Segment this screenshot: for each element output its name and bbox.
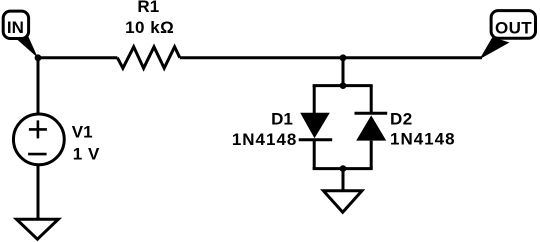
wire: D1 anode lead — [313, 86, 316, 114]
svg-text:R1: R1 — [137, 0, 159, 16]
terminal flag OUT — [480, 11, 536, 60]
svg-text:V1: V1 — [72, 122, 93, 141]
ground (under diodes) — [323, 191, 362, 213]
wire: main wire down to diode pair — [342, 58, 345, 86]
svg-text:10 kΩ: 10 kΩ — [125, 18, 174, 37]
svg-text:1N4148: 1N4148 — [232, 130, 298, 149]
wire: D2 cathode lead — [370, 86, 373, 114]
wire: bottom bus of diode pair — [313, 167, 373, 170]
wire: main horizontal right segment (R1 to OUT) — [180, 56, 482, 59]
node B (junction dot on main wire above diodes) — [340, 54, 347, 61]
svg-text:1 V: 1 V — [73, 144, 100, 163]
ground (under V1) — [17, 219, 59, 239]
wire: D2 anode lead — [370, 141, 373, 169]
node C (junction dot at top bus of diode pair) — [340, 82, 347, 89]
wire: V1 to ground — [37, 164, 40, 219]
node D (junction dot at bottom bus) — [340, 165, 347, 172]
wire: top bus of diode pair — [313, 84, 373, 87]
wire: IN node down to V1 — [37, 58, 40, 115]
terminal flag IN — [3, 11, 38, 58]
diode D2 — [355, 113, 388, 140]
wire: bottom bus to ground — [342, 169, 345, 191]
diode D1 — [299, 113, 333, 140]
svg-text:OUT: OUT — [495, 19, 532, 38]
svg-text:D2: D2 — [390, 110, 413, 129]
svg-text:IN: IN — [7, 18, 24, 37]
svg-text:D1: D1 — [271, 110, 293, 129]
node A (junction dot at IN node) — [35, 54, 42, 61]
resistor R1 — [117, 47, 179, 68]
svg-text:1N4148: 1N4148 — [390, 130, 456, 149]
wire: main horizontal left segment (node IN to R1) — [38, 56, 117, 59]
wire: D1 cathode lead — [313, 140, 316, 169]
voltage source V1 — [13, 114, 64, 165]
